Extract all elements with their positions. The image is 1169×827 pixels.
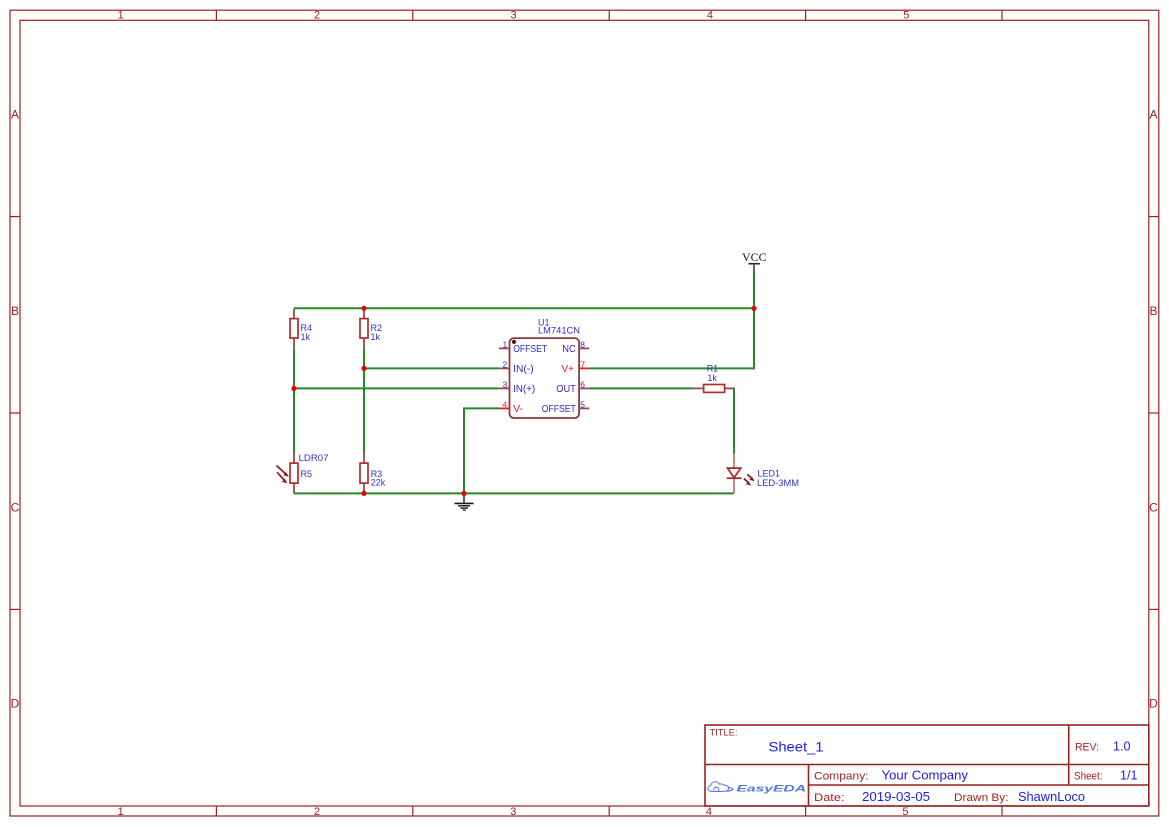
svg-text:5: 5 <box>580 399 585 409</box>
pin 3 <box>499 387 510 389</box>
pin 2 <box>499 367 510 369</box>
svg-text:3: 3 <box>510 10 516 22</box>
svg-text:8: 8 <box>580 339 585 349</box>
svg-text:OUT: OUT <box>556 384 576 395</box>
svg-text:LED1: LED1 <box>758 468 781 478</box>
resistor R2 <box>360 308 382 348</box>
wire: R2 bottom rail to IN(-) <box>364 367 499 369</box>
pin 4 <box>499 407 510 409</box>
svg-text:22k: 22k <box>371 478 386 488</box>
svg-text:1k: 1k <box>707 373 717 383</box>
pin 6 <box>579 387 589 389</box>
svg-text:LED-3MM: LED-3MM <box>757 478 799 488</box>
svg-text:1/1: 1/1 <box>1120 769 1138 783</box>
svg-text:Date:: Date: <box>814 792 845 804</box>
svg-text:REV:: REV: <box>1075 742 1099 754</box>
svg-text:B: B <box>1149 304 1157 318</box>
power VCC <box>742 250 767 274</box>
svg-text:1.0: 1.0 <box>1113 740 1131 754</box>
wire: R4 rail to IN(+) <box>294 387 499 389</box>
svg-text:Drawn By:: Drawn By: <box>954 792 1009 804</box>
svg-text:1: 1 <box>118 806 124 818</box>
svg-text:2019-03-05: 2019-03-05 <box>862 790 930 804</box>
svg-text:R5: R5 <box>301 469 313 479</box>
wire: VCC vertical drop <box>753 273 755 308</box>
svg-text:ShawnLoco: ShawnLoco <box>1018 790 1085 804</box>
wire: bottom ground net <box>294 492 734 494</box>
op-amp U1 LM741CN <box>499 317 589 418</box>
svg-text:7: 7 <box>580 359 585 369</box>
wire: V- to ground drop <box>464 408 499 493</box>
svg-text:1k: 1k <box>371 332 381 342</box>
junction node at R2 top <box>361 306 366 311</box>
svg-text:IN(-): IN(-) <box>513 364 534 375</box>
svg-text:C: C <box>11 500 20 514</box>
svg-text:R1: R1 <box>707 363 719 373</box>
wire: OUT to R1 <box>589 387 693 389</box>
svg-text:IN(+): IN(+) <box>513 384 535 395</box>
svg-text:3: 3 <box>510 806 516 818</box>
junction node at VCC <box>751 306 756 311</box>
svg-text:LDR07: LDR07 <box>299 453 329 463</box>
LED LED1 <box>727 454 799 494</box>
svg-text:2: 2 <box>314 806 320 818</box>
svg-text:OFFSET: OFFSET <box>513 344 547 355</box>
ground <box>455 493 474 510</box>
pin 1 marker <box>512 340 516 344</box>
svg-text:2: 2 <box>314 10 320 22</box>
svg-text:A: A <box>1149 108 1157 122</box>
svg-text:4: 4 <box>707 10 713 22</box>
svg-text:5: 5 <box>902 806 908 818</box>
svg-text:1k: 1k <box>301 332 311 342</box>
svg-text:V-: V- <box>513 404 523 415</box>
photoresistor R5 LDR07 <box>277 453 329 494</box>
svg-text:D: D <box>1149 697 1158 711</box>
resistor R4 <box>290 308 312 348</box>
svg-text:EasyEDA: EasyEDA <box>737 784 807 795</box>
wire: R1 to LED <box>733 388 736 453</box>
junction node at R2/IN(-) <box>361 366 366 371</box>
svg-text:6: 6 <box>580 379 585 389</box>
resistor R1 <box>694 363 735 392</box>
svg-text:V+: V+ <box>562 364 575 375</box>
pin 5 <box>579 407 589 409</box>
svg-text:NC: NC <box>562 344 576 355</box>
svg-text:4: 4 <box>706 806 712 818</box>
svg-text:3: 3 <box>502 379 507 389</box>
svg-text:TITLE:: TITLE: <box>710 728 738 739</box>
junction node at R3 bottom <box>361 491 366 496</box>
resistor R3 <box>360 453 386 493</box>
pin 7 <box>579 367 589 369</box>
svg-text:Company:: Company: <box>814 771 869 783</box>
wire: V+ from op-amp to VCC drop <box>589 308 754 368</box>
junction node at ground <box>461 491 466 496</box>
wire: top net from R4 to VCC <box>294 307 754 309</box>
pin 8 <box>579 347 589 349</box>
svg-text:Sheet_1: Sheet_1 <box>769 739 824 755</box>
svg-text:1: 1 <box>118 10 124 22</box>
svg-text:4: 4 <box>502 399 507 409</box>
wire: R2 to R3 vertical <box>363 348 365 453</box>
junction node at R4/IN(+) <box>291 386 296 391</box>
svg-text:A: A <box>11 108 19 122</box>
svg-text:5: 5 <box>903 10 909 22</box>
svg-text:LM741CN: LM741CN <box>538 325 580 335</box>
pin 1 <box>499 347 510 349</box>
svg-text:OFFSET: OFFSET <box>542 404 576 415</box>
svg-text:2: 2 <box>502 359 507 369</box>
svg-text:Your Company: Your Company <box>882 769 969 783</box>
svg-text:Sheet:: Sheet: <box>1074 771 1103 783</box>
svg-text:VCC: VCC <box>742 250 767 264</box>
svg-text:B: B <box>11 304 19 318</box>
svg-text:1: 1 <box>502 339 507 349</box>
wire: R4 to R5 vertical <box>293 348 295 453</box>
svg-text:D: D <box>11 697 20 711</box>
svg-text:C: C <box>1149 500 1158 514</box>
